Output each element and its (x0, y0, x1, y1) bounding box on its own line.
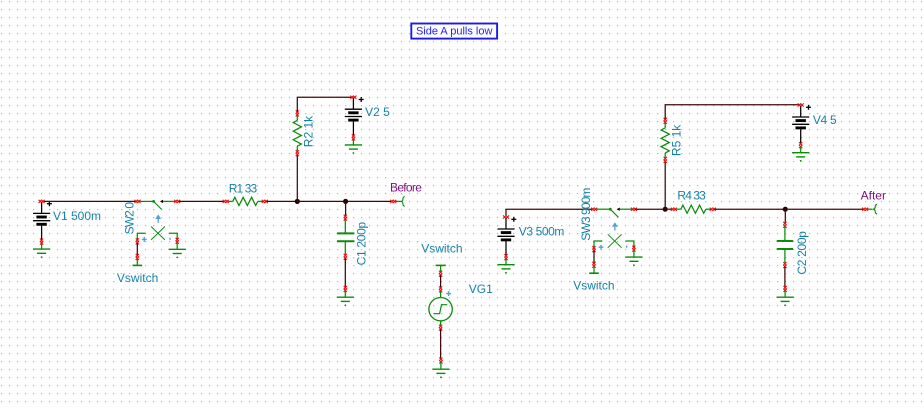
svg-text:Before: Before (390, 181, 422, 195)
svg-text:V1 500m: V1 500m (53, 209, 101, 223)
svg-text:R1 33: R1 33 (229, 182, 258, 196)
svg-text:R4 33: R4 33 (677, 188, 706, 202)
svg-text:R2 1k: R2 1k (302, 115, 316, 147)
svg-text:Vswitch: Vswitch (421, 242, 462, 256)
svg-text:C1 200p: C1 200p (355, 221, 369, 265)
svg-text:Vswitch: Vswitch (117, 271, 158, 285)
svg-text:C2 200p: C2 200p (795, 231, 809, 275)
svg-text:V2 5: V2 5 (365, 105, 390, 119)
svg-text:V4 5: V4 5 (813, 113, 837, 127)
svg-text:R5 1k: R5 1k (670, 124, 684, 156)
svg-text:V3 500m: V3 500m (519, 225, 565, 239)
svg-text:SW3 900m: SW3 900m (579, 188, 593, 241)
svg-text:VG1: VG1 (469, 282, 493, 296)
svg-text:Vswitch: Vswitch (573, 279, 614, 293)
svg-text:SW2 0: SW2 0 (122, 202, 136, 235)
svg-text:After: After (861, 189, 886, 203)
svg-text:Side A pulls low: Side A pulls low (416, 25, 492, 37)
